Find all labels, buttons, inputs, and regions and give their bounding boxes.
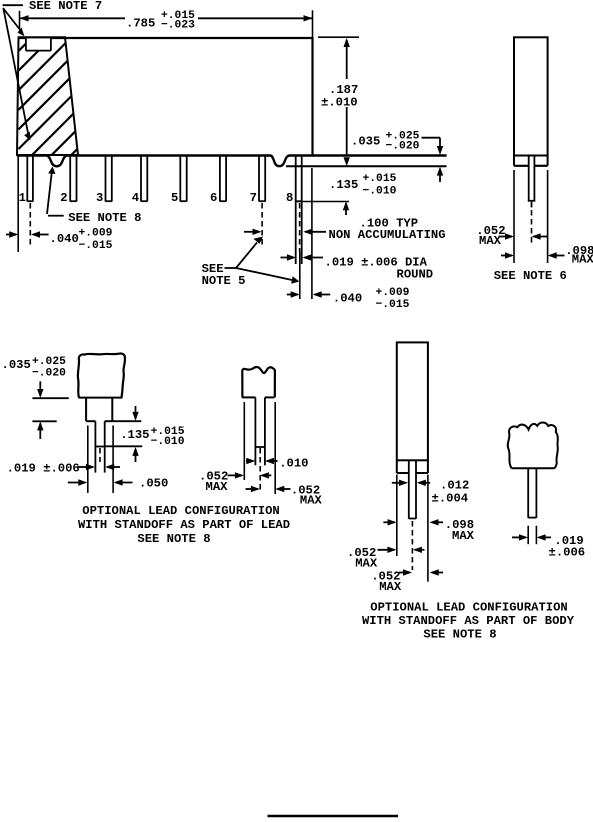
- svg-text:.035: .035: [351, 134, 380, 148]
- svg-text:ROUND: ROUND: [397, 268, 434, 282]
- svg-text:6: 6: [210, 191, 217, 205]
- fig-a standoff: [86, 398, 112, 422]
- svg-text:MAX: MAX: [452, 529, 475, 543]
- svg-text:MAX: MAX: [206, 480, 229, 494]
- body right edge extension: [311, 168, 313, 299]
- fig-c ext lines: [397, 475, 428, 582]
- svg-text:−.010: −.010: [151, 436, 185, 448]
- fig-a dim .019: [7, 461, 120, 475]
- fig-b dim .052 right: [246, 483, 323, 507]
- svg-text:.019 ±.006: .019 ±.006: [7, 461, 80, 475]
- side view standoff: [514, 156, 548, 166]
- fig-b lead: [255, 397, 265, 465]
- svg-text:.040: .040: [50, 232, 79, 246]
- dim .035 leader: [422, 138, 444, 182]
- svg-text:.785: .785: [126, 17, 155, 31]
- pin number 2: [60, 191, 67, 205]
- fig-c lead centerline: [411, 521, 413, 570]
- pin 1: [27, 157, 33, 202]
- pin number 3: [96, 191, 103, 205]
- fig-b dim .052 left: [199, 469, 271, 494]
- fig-a dim .050: [68, 477, 168, 491]
- side view extension lines: [514, 170, 548, 263]
- fig-a ext lines: [88, 425, 113, 493]
- fig-c body: [397, 342, 428, 460]
- dim .785 line: [20, 15, 313, 21]
- left body edge extension: [17, 156, 19, 253]
- svg-text:MAX: MAX: [572, 253, 593, 267]
- see note 7 label: [29, 0, 102, 13]
- fig-a lead centerline: [99, 448, 101, 462]
- side dim .098: [501, 244, 593, 266]
- svg-text:7: 7: [250, 191, 257, 205]
- pin 4: [141, 157, 147, 202]
- seating plane line: [286, 165, 447, 167]
- dim .135 arrow: [343, 201, 349, 215]
- fig-a lead: [95, 421, 104, 472]
- fig-b body blob: [242, 367, 275, 397]
- dim .785 text: [126, 10, 195, 32]
- svg-text:−.015: −.015: [79, 240, 113, 252]
- fig-c dim .098: [383, 518, 474, 543]
- dim .040 left arrows: [6, 231, 49, 237]
- see note 5 leaders: [225, 237, 300, 284]
- pin number 7: [250, 191, 257, 205]
- pin 6: [220, 157, 226, 202]
- svg-text:.135: .135: [120, 428, 149, 442]
- fig-d dim .019: [512, 534, 585, 559]
- svg-text:−.020: −.020: [32, 367, 66, 379]
- dim .785 extension lines: [20, 10, 313, 37]
- dim .040 right arrows: [287, 291, 330, 297]
- svg-text:±.010: ±.010: [321, 95, 358, 109]
- body right edge: [311, 37, 313, 156]
- svg-text:SEE NOTE 6: SEE NOTE 6: [494, 269, 567, 283]
- pin 2: [70, 157, 76, 202]
- side view pin: [528, 157, 536, 208]
- svg-text:.035: .035: [2, 358, 31, 372]
- svg-text:−.015: −.015: [376, 299, 410, 311]
- svg-text:+.015: +.015: [363, 173, 397, 185]
- lead tip extension line: [296, 201, 349, 203]
- svg-text:SEE NOTE 8: SEE NOTE 8: [68, 211, 141, 225]
- pin number 6: [210, 191, 217, 205]
- see note 6 text: [494, 269, 567, 283]
- see note 5 text: [202, 262, 246, 288]
- fig-a caption: [78, 504, 290, 546]
- hatched wedge (note 7 area): [17, 36, 149, 227]
- svg-text:MAX: MAX: [479, 234, 502, 248]
- svg-text:.040: .040: [333, 292, 362, 306]
- svg-text:MAX: MAX: [300, 493, 323, 507]
- svg-text:1: 1: [19, 191, 26, 205]
- pin 1 centerline: [29, 203, 31, 248]
- dim .100 text: [329, 217, 446, 242]
- index notch: [26, 38, 51, 50]
- svg-text:−.010: −.010: [363, 186, 397, 198]
- shoulder line with standoff dips: [17, 156, 447, 167]
- dim .100 arrows: [244, 229, 326, 235]
- fig-c dim .012: [392, 479, 469, 506]
- see note 8 text: [68, 211, 141, 225]
- fig-c standoff: [397, 460, 428, 473]
- svg-text:+.009: +.009: [376, 287, 410, 299]
- svg-text:SEE NOTE 7: SEE NOTE 7: [29, 0, 102, 13]
- fig-a ref lines: [32, 398, 142, 446]
- svg-text:.012: .012: [440, 479, 469, 493]
- svg-text:±.004: ±.004: [432, 492, 469, 506]
- body top edge: [19, 37, 313, 39]
- svg-text:8: 8: [286, 191, 293, 205]
- side view pin centerline: [531, 210, 533, 243]
- dim .035 text: [351, 130, 420, 152]
- svg-text:SEE NOTE 8: SEE NOTE 8: [423, 628, 496, 642]
- svg-text:3: 3: [96, 191, 103, 205]
- fig-d lead: [528, 468, 536, 518]
- svg-text:2: 2: [60, 191, 67, 205]
- svg-text:±.006: ±.006: [549, 545, 586, 559]
- pin 7: [259, 157, 265, 202]
- dim .019 text: [325, 256, 434, 282]
- svg-text:.135: .135: [329, 178, 358, 192]
- dim .135 text: [329, 173, 397, 198]
- fig-c dim .052 left: [347, 546, 425, 571]
- svg-text:5: 5: [171, 191, 178, 205]
- svg-text:4: 4: [132, 191, 139, 205]
- pin 8: [296, 157, 302, 265]
- svg-text:−.023: −.023: [161, 20, 195, 32]
- fig-c caption: [362, 600, 575, 641]
- pin 3: [106, 157, 112, 202]
- fig-a dim .035: [2, 356, 67, 439]
- fig-a body blob: [78, 354, 125, 398]
- svg-text:NON ACCUMULATING: NON ACCUMULATING: [329, 228, 446, 242]
- pin number 1: [19, 191, 26, 205]
- svg-text:NOTE 5: NOTE 5: [202, 274, 246, 288]
- svg-text:+.009: +.009: [79, 227, 113, 239]
- pin 5: [180, 157, 186, 202]
- fig-d blob bottom: [512, 467, 555, 469]
- see note 8 leader: [47, 167, 64, 216]
- fig-d ext lines: [528, 526, 536, 545]
- fig-b ext lines: [244, 402, 275, 494]
- fig-c dim .052 lower: [371, 569, 443, 594]
- svg-text:SEE NOTE 8: SEE NOTE 8: [137, 532, 210, 546]
- fig-d body blob: [508, 422, 558, 468]
- fig-b dim .010: [246, 456, 308, 470]
- fig-b lead centerline: [259, 448, 261, 490]
- svg-text:−.020: −.020: [386, 141, 420, 153]
- side view body: [514, 37, 548, 155]
- pin number 8: [286, 191, 293, 205]
- svg-text:.010: .010: [279, 456, 308, 470]
- pin 8 centerline: [299, 203, 301, 299]
- footer rule: [268, 815, 399, 818]
- fig-a blob bottom: [79, 397, 123, 399]
- svg-text:WITH STANDOFF AS PART OF LEAD: WITH STANDOFF AS PART OF LEAD: [78, 518, 290, 532]
- svg-text:MAX: MAX: [355, 556, 378, 570]
- pin number 5: [171, 191, 178, 205]
- fig-b blob bottom: [242, 396, 275, 398]
- dim .040 left text: [50, 227, 113, 252]
- dim .019 arrows: [281, 254, 324, 260]
- see note 7 leader: [3, 5, 31, 140]
- dim .187 line: [344, 38, 350, 166]
- fig-c lead: [409, 460, 416, 519]
- svg-text:WITH STANDOFF AS PART OF BODY: WITH STANDOFF AS PART OF BODY: [362, 614, 575, 628]
- svg-text:OPTIONAL LEAD CONFIGURATION: OPTIONAL LEAD CONFIGURATION: [82, 504, 279, 518]
- pin number 4: [132, 191, 139, 205]
- svg-text:OPTIONAL LEAD CONFIGURATION: OPTIONAL LEAD CONFIGURATION: [370, 600, 567, 614]
- dim .187 text: [321, 83, 358, 109]
- svg-text:MAX: MAX: [379, 580, 402, 594]
- svg-text:.050: .050: [139, 477, 168, 491]
- side dim .052: [476, 224, 547, 248]
- dim .187 top extension: [318, 36, 359, 38]
- fig-a dim .135: [120, 406, 185, 462]
- dim .040 right text: [333, 287, 410, 311]
- pin 7 centerline: [261, 203, 263, 246]
